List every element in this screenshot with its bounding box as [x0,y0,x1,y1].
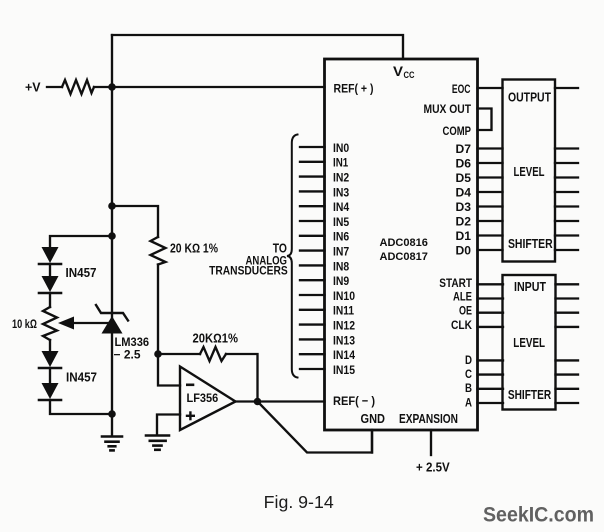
svg-text:IN13: IN13 [333,334,355,347]
pin IN9 wire [300,279,325,281]
svg-text:D: D [465,353,472,367]
svg-text:CC: CC [404,70,415,81]
svg-text:10 kΩ: 10 kΩ [12,317,37,331]
svg-text:B: B [465,381,472,395]
svg-text:SHIFTER: SHIFTER [508,237,553,251]
wire MUX OUT to COMP loop [478,109,492,131]
node C (summing node) [154,350,162,358]
wire pot to D3 [49,340,51,351]
svg-text:GND: GND [361,411,386,426]
svg-text:CLK: CLK [451,318,472,332]
svg-text:− 2.5: − 2.5 [114,350,142,362]
svg-text:D7: D7 [456,142,472,156]
pin ALE wire [478,297,504,299]
zener U2 LM336-2.5 [96,305,128,334]
svg-text:IN1: IN1 [333,157,349,170]
svg-text:INPUT: INPUT [514,280,546,294]
svg-text:ALE: ALE [453,290,472,304]
pin EXPANSION wire [430,430,432,455]
diode D1 IN457 [39,247,61,276]
svg-text:IN4: IN4 [333,201,350,214]
svg-text:IN457: IN457 [66,266,97,280]
pin D2 wire [478,220,503,222]
diode D4 IN457 [39,383,112,414]
svg-text:D3: D3 [456,200,472,214]
pin GND wire [371,430,373,453]
LS2 right pin wires [556,284,579,403]
svg-text:REF( + ): REF( + ) [334,82,374,96]
pin D5 wire [478,176,503,178]
svg-text:IN5: IN5 [333,216,350,229]
pin B wire [478,388,504,390]
wire to diode chain [50,236,112,247]
svg-text:20KΩ1%: 20KΩ1% [193,332,239,346]
svg-text:OUTPUT: OUTPUT [508,91,551,105]
pin IN11 wire [300,309,325,311]
label op-amp plus [186,411,195,420]
svg-text:IN12: IN12 [333,320,355,333]
node E (bottom rail junction) [108,410,116,418]
wire top VCC feed [112,35,403,59]
svg-text:IN3: IN3 [333,186,350,199]
potentiometer 10 kOhm [43,307,57,340]
wiper arrow (LM336 adjust) [58,317,112,330]
svg-text:IN2: IN2 [333,172,350,185]
svg-text:LM336: LM336 [115,336,150,349]
pin IN5 wire [300,220,325,222]
level shifter block LS1 (output) [503,80,556,262]
wire inverting input [158,354,180,386]
svg-text:Fig. 9-14: Fig. 9-14 [264,492,334,512]
svg-text:IN7: IN7 [333,246,349,259]
svg-text:V: V [393,63,404,79]
wire output to REF(-) [258,400,325,402]
node B (20k branch) [108,202,116,210]
svg-text:IN11: IN11 [333,305,354,318]
svg-text:IN9: IN9 [333,275,350,288]
wire resistor to REF(+) [94,86,325,88]
label op-amp minus [186,383,194,386]
pin START wire [478,283,504,285]
wire op-amp output [236,400,258,402]
svg-text:A: A [465,395,472,409]
level shifter block LS2 (input) [503,275,556,410]
pin IN7 wire [300,249,325,251]
wire branch to 20k resistor [112,206,158,237]
ground G1 [102,437,122,451]
wire R2 to node C [157,265,159,355]
svg-text:IN14: IN14 [333,349,355,362]
pin IN4 wire [300,205,325,207]
op-amp U1 LF356 [180,367,236,431]
svg-text:D2: D2 [456,214,472,228]
svg-text:COMP: COMP [443,124,472,138]
pin IN12 wire [300,323,325,325]
node D (diode chain top) [108,232,116,240]
pin OE wire [478,312,504,314]
pin IN13 wire [300,338,325,340]
brace analog inputs [287,135,298,378]
pin IN15 wire [300,368,325,370]
svg-text:EOC: EOC [452,82,471,96]
svg-text:IN457: IN457 [66,371,97,385]
label TO ANALOG TRANSDUCERS [209,241,288,278]
svg-text:C: C [465,367,472,381]
svg-text:D1: D1 [456,229,472,243]
svg-text:SHIFTER: SHIFTER [508,388,551,402]
pin IN6 wire [300,235,325,237]
svg-text:IN8: IN8 [333,260,350,273]
svg-text:OE: OE [459,304,472,318]
pin D3 wire [478,205,503,207]
pin CLK wire [478,326,504,328]
svg-text:MUX OUT: MUX OUT [424,102,472,116]
pin D1 wire [478,234,503,236]
resistor R2 20 KOhm 1% [151,237,166,265]
svg-text:SeekIC.com: SeekIC.com [483,504,594,527]
svg-text:IN0: IN0 [333,142,350,155]
svg-text:EXPANSION: EXPANSION [399,411,458,426]
svg-text:IN6: IN6 [333,231,350,244]
wire feedback right [226,354,258,402]
svg-text:LEVEL: LEVEL [513,336,545,350]
pin IN2 wire [300,175,325,177]
pin D6 wire [478,162,503,164]
node F (output node) [254,398,262,406]
svg-text:LEVEL: LEVEL [514,165,545,179]
node A (+V junction) [108,83,116,91]
wire output to GND pin [258,402,373,453]
resistor R3 20KOhm 1% feedback [200,347,226,361]
svg-text:REF( − ): REF( − ) [333,394,375,408]
svg-text:LF356: LF356 [187,393,219,405]
svg-text:20 KΩ 1%: 20 KΩ 1% [170,241,218,256]
pin D7 wire [478,147,503,149]
pin IN14 wire [300,353,325,355]
wire feedback left [158,353,200,355]
svg-text:D4: D4 [456,185,472,199]
svg-text:+ 2.5V: + 2.5V [416,460,450,475]
svg-text:TRANSDUCERS: TRANSDUCERS [209,264,288,278]
svg-text:D6: D6 [456,156,472,170]
pin IN1 wire [300,161,325,163]
resistor R1 (+V series) [62,80,94,94]
pin IN3 wire [300,190,325,192]
pin D0 wire [478,249,503,251]
svg-text:IN15: IN15 [333,364,355,377]
pin EOC wire [478,87,503,89]
pin D wire [478,359,504,361]
pin A wire [478,402,504,404]
svg-text:+V: +V [25,80,41,95]
LS1 right pin wires [555,88,578,250]
ground G2 [146,436,169,450]
label IN0..IN15 [333,142,355,377]
wire main vertical rail [111,35,113,436]
diode D2 IN457 [39,276,61,307]
wire +V to resistor [47,86,62,88]
svg-text:ADC0816: ADC0816 [380,237,428,249]
pin D4 wire [478,191,503,193]
pin IN0 wire [300,146,325,148]
svg-text:IN10: IN10 [333,290,355,303]
IC U3 ADC0816/ADC0817 body [325,59,478,430]
svg-text:D0: D0 [456,243,472,257]
svg-text:START: START [439,276,472,290]
pin IN10 wire [300,294,325,296]
pin C wire [478,373,504,375]
pin IN8 wire [300,264,325,266]
svg-text:ADC0817: ADC0817 [380,251,428,263]
diode D3 IN457 [39,351,61,383]
svg-text:D5: D5 [456,171,472,185]
wire non-inverting input [157,415,180,435]
